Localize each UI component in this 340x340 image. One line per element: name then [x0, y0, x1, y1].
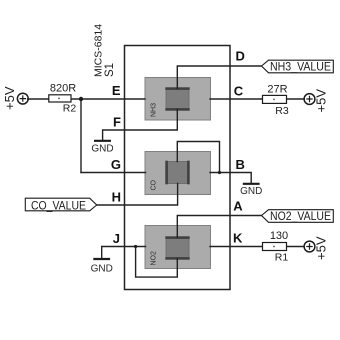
wire J net: GND to sensor3 left: [102, 246, 146, 248]
wire D net: sensor1 top to pin D and NH3 flag: [177, 66, 261, 89]
svg-text:GND: GND: [240, 186, 262, 197]
power +5V right bottom: [304, 236, 328, 260]
svg-text:E: E: [112, 83, 121, 98]
svg-text:G: G: [111, 157, 121, 172]
wire E net: R2 to pin E into sensor1: [71, 98, 145, 100]
svg-text:130: 130: [270, 230, 288, 242]
wire E net: +5V to R2: [28, 98, 49, 100]
wire C net: sensor1 right to R3: [210, 98, 263, 100]
sensor element NH3 (sensor1): [145, 78, 211, 121]
svg-text:C: C: [234, 84, 244, 99]
svg-text:GND: GND: [91, 264, 113, 275]
chip outline S1 MICS-6814: [125, 46, 231, 290]
wire B net: sensor2 right to GND: [210, 173, 251, 184]
resistor R3: [263, 84, 289, 118]
svg-text:D: D: [236, 49, 245, 64]
sensor element CO (sensor2): [145, 152, 211, 195]
resistor R2: [49, 83, 77, 115]
wire A net: sensor3 top to pin A and NO2 flag: [177, 216, 261, 238]
svg-text:27R: 27R: [267, 84, 287, 96]
net flag NO2_VALUE: [262, 210, 334, 223]
junction node J loop: [134, 245, 137, 248]
wire B net: sensor2 top loop: [177, 142, 219, 173]
svg-text:820R: 820R: [50, 83, 76, 95]
junction node E/G: [79, 97, 83, 101]
svg-text:+5V: +5V: [2, 86, 17, 110]
net flag CO_VALUE: [25, 198, 96, 212]
power +5V left: [2, 86, 28, 110]
svg-text:NH3: NH3: [151, 103, 158, 117]
wire K net: sensor3 right to R1: [210, 246, 263, 248]
svg-text:CO_VALUE: CO_VALUE: [31, 200, 86, 212]
svg-text:J: J: [113, 231, 120, 246]
svg-text:+5V: +5V: [314, 89, 329, 113]
wire K net: R1 to +5V: [287, 246, 305, 248]
svg-text:R3: R3: [275, 105, 289, 117]
svg-text:A: A: [233, 199, 243, 214]
wire F net: sensor1 bottom to GND: [103, 110, 178, 141]
net flag NH3_VALUE: [262, 60, 334, 73]
svg-text:B: B: [236, 157, 245, 172]
svg-text:H: H: [112, 190, 121, 205]
wire G net vertical from junction: [80, 99, 82, 173]
svg-text:+5V: +5V: [314, 236, 329, 260]
svg-text:GND: GND: [91, 144, 113, 155]
power +5V right top: [304, 89, 328, 113]
sensor element NO2 (sensor3): [145, 226, 211, 269]
svg-text:F: F: [113, 115, 121, 130]
svg-text:R2: R2: [63, 103, 77, 115]
junction node B loop: [218, 171, 221, 174]
svg-text:K: K: [233, 231, 243, 246]
wire H net: sensor2 bottom to CO flag: [97, 184, 178, 206]
svg-text:CO: CO: [151, 179, 158, 190]
wire J net: sensor3 bottom loop: [136, 247, 178, 278]
svg-text:NO2_VALUE: NO2_VALUE: [270, 211, 331, 223]
resistor R1: [263, 230, 289, 264]
svg-text:NH3_VALUE: NH3_VALUE: [270, 61, 331, 73]
svg-text:NO2: NO2: [151, 251, 158, 266]
wire G net horizontal to sensor2: [81, 172, 146, 174]
wire J net: GND drop: [101, 247, 103, 259]
svg-text:MICS-6814: MICS-6814: [93, 24, 105, 77]
svg-text:R1: R1: [275, 252, 289, 264]
svg-text:S1: S1: [104, 63, 116, 77]
ground GND J: [91, 259, 113, 275]
wire C net: R3 to +5V: [287, 98, 305, 100]
ground GND B: [240, 184, 262, 197]
ground GND F: [91, 141, 113, 155]
